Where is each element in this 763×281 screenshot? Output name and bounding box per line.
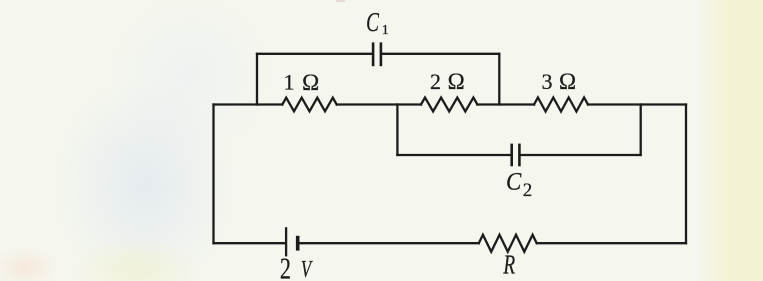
svg-text:2: 2 <box>430 69 441 94</box>
battery V1 long plate (positive) <box>285 227 287 256</box>
svg-text:Ω: Ω <box>559 69 576 94</box>
faint red mark at top edge <box>336 0 345 2</box>
wire: top branch left segment (to C1 left plate) <box>257 53 372 55</box>
svg-text:C: C <box>366 8 380 38</box>
capacitor C1 right plate <box>380 42 383 66</box>
wire: left outer vertical <box>212 105 214 244</box>
wire: C2 branch right segment (from C2 right plate) <box>520 154 640 156</box>
wire: bottom, battery to resistor R <box>299 242 479 244</box>
wire: C2 branch left segment (to C2 left plate) <box>397 154 510 156</box>
wire: right outer vertical <box>685 105 687 244</box>
svg-text:2: 2 <box>280 251 291 281</box>
svg-text:1: 1 <box>382 23 389 38</box>
svg-text:Ω: Ω <box>448 69 465 94</box>
battery V1 short plate (negative) <box>296 236 300 251</box>
wire: bottom, left end to battery <box>214 242 286 244</box>
wire: bottom, resistor R to right end <box>537 242 686 244</box>
resistor R2 2 ohm zigzag <box>421 98 477 112</box>
capacitor C2 left plate <box>510 144 513 167</box>
resistor R3 3 ohm zigzag <box>534 98 588 112</box>
wire: C1 branch right leg <box>498 54 500 105</box>
svg-text:2: 2 <box>523 180 533 201</box>
svg-text:R: R <box>503 251 516 281</box>
svg-text:1: 1 <box>284 70 295 95</box>
svg-text:C: C <box>506 167 522 195</box>
capacitor C1 left plate <box>372 42 375 66</box>
svg-text:3: 3 <box>542 69 553 94</box>
resistor R zigzag <box>479 235 537 252</box>
wire: C2 branch left leg <box>396 105 398 156</box>
capacitor C2 right plate <box>518 144 521 167</box>
wire: main line between 1 ohm and 2 ohm <box>337 103 421 105</box>
wire: main line, 3 ohm to right end <box>588 103 686 105</box>
wire: C2 branch right leg <box>640 105 642 156</box>
resistor R1 1 ohm zigzag <box>282 98 336 112</box>
wire: main line between 2 ohm and 3 ohm <box>477 103 534 105</box>
wire: top branch right segment (from C1 right plate) <box>382 53 499 55</box>
wire: main line, left end to resistor R1 <box>214 103 283 105</box>
svg-text:Ω: Ω <box>302 70 319 95</box>
wire: C1 branch left leg <box>256 54 258 105</box>
svg-text:V: V <box>301 257 313 281</box>
